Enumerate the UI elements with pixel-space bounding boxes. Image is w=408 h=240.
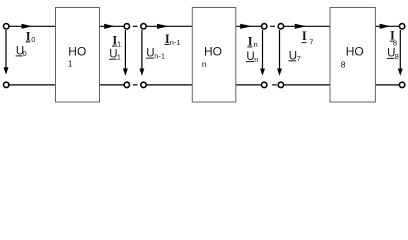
current arrow I1 [104,24,115,29]
ellipsis dash bottom junction 1 [133,84,138,86]
terminal bottom node 4 [278,82,283,87]
svg-text:8: 8 [395,52,399,61]
label Un [246,51,258,64]
wire bottom HO1 to node 1 [100,84,125,86]
wire bottom node 4 to HO8 [284,84,331,86]
terminal top node 2 [141,24,146,29]
label U1 [109,49,121,62]
svg-text:1: 1 [117,39,121,48]
svg-text:n: n [254,40,258,49]
svg-text:n: n [254,55,258,64]
label HO8 [341,44,364,69]
terminal top node 3 [262,24,267,29]
wire top node 4 to HO8 [284,25,331,27]
label I0 [25,29,35,44]
wire top HOn to node 3 [236,25,262,27]
voltage arrow U0 [4,30,9,75]
wire bottom node 2 to HOn [146,84,192,86]
voltage arrow U7 [277,30,282,76]
voltage arrow Un-1 [139,30,144,76]
wire bottom input [9,84,56,86]
label In [247,34,257,49]
label U8 [387,48,399,61]
voltage arrow U1 [123,30,128,76]
terminal top output [399,24,404,29]
svg-text:I: I [26,29,31,43]
svg-text:0: 0 [31,35,35,44]
label U7 [288,50,300,63]
svg-text:n: n [202,59,207,69]
wire top HO1 to node 1 [100,25,125,27]
svg-text:7: 7 [309,38,313,47]
two-port network HOn box [192,8,236,103]
label U0 [16,45,27,58]
terminal top node 4 [278,24,283,29]
wire top input [9,25,56,27]
ellipsis dash bottom junction 2 [272,84,277,86]
current arrow I8 [380,24,391,29]
terminal bottom node 3 [262,82,267,87]
ellipsis dash top junction 1 [133,25,138,27]
svg-text:НО: НО [204,44,222,58]
voltage arrow Un [260,30,265,76]
svg-text:8: 8 [393,39,397,48]
terminal bottom input [3,82,8,87]
two-port network HO8 box [330,8,375,103]
terminal top input [3,24,8,29]
wire bottom output [375,84,399,86]
svg-text:1: 1 [117,52,121,61]
terminal bottom node 1 [124,82,129,87]
label In-1 [165,32,181,47]
ellipsis dash top junction 2 [270,25,275,27]
two-port network HO1 box [56,8,100,103]
svg-text:НО: НО [68,44,86,58]
label HO1 [68,44,87,68]
terminal top node 1 [124,24,129,29]
label HOn [202,44,222,69]
svg-text:7: 7 [297,54,301,63]
wire top output [375,25,399,27]
svg-text:0: 0 [23,49,27,58]
svg-text:n-1: n-1 [154,51,165,60]
svg-text:НО: НО [346,44,364,58]
terminal bottom node 2 [141,82,146,87]
terminal bottom output [399,82,404,87]
current arrow I7 [295,24,307,29]
voltage arrow U8 [398,30,403,76]
label I8 [390,29,397,48]
svg-text:1: 1 [68,59,73,69]
current arrow I0 [22,24,33,29]
wire top node 2 to HOn [146,25,192,27]
label Un-1 [146,48,165,61]
current arrow In-1 [157,24,169,29]
current arrow In [240,24,252,29]
svg-text:n-1: n-1 [170,38,181,47]
wire bottom HOn to node 3 [236,84,262,86]
svg-text:I: I [248,34,253,48]
label I1 [112,34,121,49]
label I7 [302,29,314,47]
svg-text:8: 8 [341,60,346,70]
svg-text:I: I [302,29,307,43]
